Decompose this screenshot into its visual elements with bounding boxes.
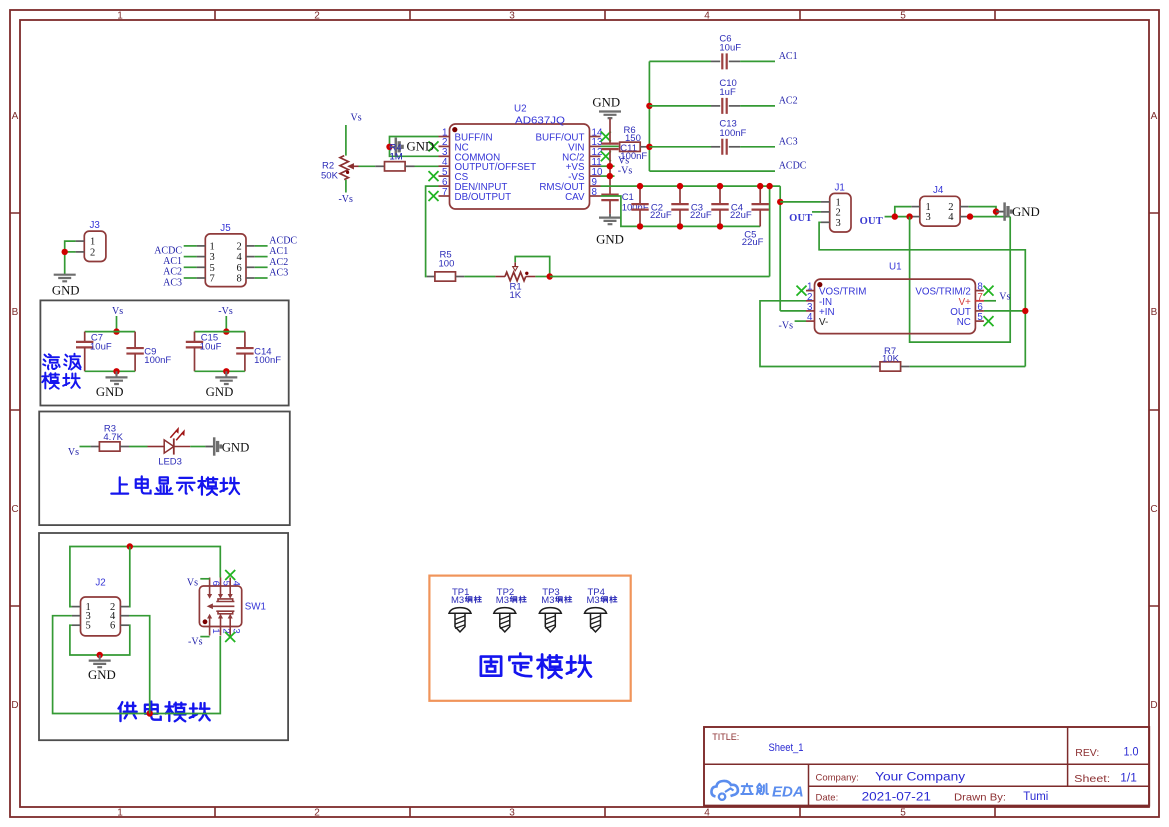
U2 pin 8 CAV — [590, 195, 601, 197]
module title 模块 — [42, 373, 59, 389]
resistor R5 100 — [427, 276, 435, 278]
SW1 pin1 marker dot — [203, 619, 208, 624]
SW1 pin 5 — [220, 578, 222, 596]
svg-text:1M: 1M — [390, 151, 403, 162]
no-connect X U1 pin8 — [984, 286, 994, 296]
node junction J3 — [61, 249, 67, 255]
resistor R3 4.7K — [91, 446, 100, 448]
no-connect X U2 pin 2 — [429, 141, 439, 151]
ground (sideways) at R4 loop — [390, 146, 396, 148]
junction feedback riser on rail — [766, 183, 772, 189]
junction C2 top — [637, 183, 643, 189]
wire riser up to RMS/OUT rail — [769, 187, 771, 277]
J4 pin 3 — [911, 216, 920, 218]
svg-text:Drawn By:: Drawn By: — [954, 793, 1006, 804]
wire rail corner down to J1 pin1 — [779, 186, 781, 311]
svg-text:AC3: AC3 — [163, 277, 182, 288]
svg-text:4: 4 — [948, 212, 954, 223]
ground GND at J2 — [99, 655, 101, 660]
J1 pin 3 — [821, 221, 830, 223]
wire R2 wiper to R4 — [359, 165, 376, 167]
module box 固定模块 (orange) — [429, 576, 630, 701]
U1 pin 1 VOS/TRIM — [806, 290, 815, 292]
node junction right of R1 — [547, 273, 553, 279]
J2 pin 5 — [72, 624, 81, 626]
svg-text:GND: GND — [88, 668, 116, 682]
svg-text:-Vs: -Vs — [188, 637, 203, 648]
svg-text:AD637JQ: AD637JQ — [515, 115, 565, 126]
node junction bottom wire — [147, 710, 153, 716]
wire J2 pin5 to GND rail — [70, 625, 130, 655]
wire Vs to R3 — [80, 446, 91, 448]
svg-text:Vs: Vs — [351, 113, 362, 124]
svg-text:J3: J3 — [90, 220, 101, 231]
svg-text:Vs: Vs — [68, 447, 79, 458]
node junction filter top Vs — [113, 328, 119, 334]
node junction J4 pin1/3 — [892, 213, 898, 219]
junction C4 bottom — [717, 223, 723, 229]
screw symbol TP2 — [494, 608, 516, 614]
svg-text:50K: 50K — [321, 170, 339, 181]
wire J2 pin3 down to bottom — [53, 616, 221, 714]
resistor R7 10K — [871, 366, 880, 368]
wire J4 pin2 to GND — [969, 207, 996, 217]
capacitor C5 22uF — [759, 186, 761, 203]
module title 固定模块 — [481, 657, 501, 676]
module title 供电模块 — [119, 702, 137, 721]
svg-text:AC1: AC1 — [779, 51, 798, 62]
capacitor C4 22uF — [719, 186, 721, 203]
J2 pin 3 — [72, 615, 81, 617]
junction C3 top — [677, 183, 683, 189]
no-connect X U1 pin1 — [797, 286, 807, 296]
svg-text:3: 3 — [509, 808, 515, 819]
net label OUT at J1 pin2 — [812, 211, 821, 213]
svg-text:-Vs: -Vs — [779, 320, 794, 331]
node junction filter top -Vs — [223, 328, 229, 334]
svg-text:1/1: 1/1 — [1120, 772, 1137, 784]
SW1 upper contact — [216, 599, 234, 602]
U2 pin 5 CS — [439, 175, 450, 177]
U1 pin 4 V- — [806, 320, 815, 322]
wire R4 to U2 pin 4 — [415, 165, 439, 167]
svg-text:22uF: 22uF — [650, 210, 672, 221]
title block row divider 1 — [704, 763, 1149, 765]
SW1 common arm — [211, 605, 235, 607]
svg-text:8: 8 — [237, 274, 242, 285]
svg-text:4: 4 — [704, 808, 710, 819]
wire AC bus vertical — [648, 61, 650, 171]
module box 供电模块 — [39, 533, 288, 740]
op-amp U2 AD637JQ body — [450, 124, 590, 209]
wire U2 pin6 down and right to R5 — [426, 186, 439, 276]
J1 pin 2 — [821, 211, 830, 213]
svg-text:B: B — [1151, 307, 1158, 318]
svg-text:10uF: 10uF — [200, 342, 222, 353]
node junction on pin1-pin3 loop — [386, 144, 392, 150]
svg-text:U1: U1 — [889, 261, 902, 272]
svg-text:7: 7 — [442, 187, 447, 198]
node junction J4 pin4 — [967, 213, 973, 219]
node junction GND stem — [993, 208, 999, 214]
wire filter top rail — [195, 331, 245, 333]
svg-text:6: 6 — [210, 581, 221, 586]
wire filter bottom rail — [85, 370, 135, 372]
svg-text:22uF: 22uF — [730, 210, 752, 221]
svg-text:DB/OUTPUT: DB/OUTPUT — [455, 192, 512, 203]
svg-text:4: 4 — [704, 11, 710, 22]
J5 pin 5 — [197, 266, 206, 268]
connector J4 — [920, 196, 960, 226]
svg-text:5: 5 — [210, 263, 215, 274]
wire U2 pin13 to R6 — [601, 145, 619, 147]
wire U2 pin10 -VS stub — [601, 175, 615, 177]
svg-text:Vs: Vs — [112, 306, 123, 317]
svg-text:10uF: 10uF — [719, 43, 741, 54]
U2 pin 14 BUFF/OUT — [590, 136, 601, 138]
svg-text:Sheet_1: Sheet_1 — [769, 742, 804, 754]
potentiometer R2 50K — [340, 156, 348, 180]
svg-text:M3: M3 — [541, 595, 554, 606]
ground (sideways) at J4 — [996, 211, 1004, 213]
wire R1 node to feedback riser — [550, 276, 770, 278]
SW1 pin 1 — [209, 617, 211, 636]
title block row divider 2 — [809, 785, 1150, 787]
svg-text:6: 6 — [237, 263, 242, 274]
ground GND below J3 — [54, 275, 76, 282]
node junction GND rail — [97, 652, 103, 658]
svg-text:4: 4 — [237, 252, 243, 263]
ground GND filter — [116, 371, 118, 377]
ground GND filter — [225, 371, 227, 377]
svg-text:AC2: AC2 — [779, 96, 798, 107]
frame column ticks top/bottom — [215, 10, 995, 817]
svg-text:100nF: 100nF — [254, 355, 281, 366]
J5 pin 3 — [197, 256, 206, 258]
U2 pin 12 NC/2 — [590, 155, 601, 157]
svg-text:OUT: OUT — [860, 216, 883, 227]
wire J4 pin4 — [969, 216, 1011, 218]
capacitor C11 100nF (vertical) — [601, 144, 618, 150]
U2 pin 4 OUTPUT/OFFSET — [439, 165, 450, 167]
svg-text:2: 2 — [836, 207, 841, 218]
svg-text:J4: J4 — [933, 185, 944, 196]
junction C4 top — [717, 183, 723, 189]
U2 pin 3 COMMON — [439, 155, 450, 157]
capacitor C1 100nF (vertical) — [601, 195, 618, 201]
svg-text:1: 1 — [117, 11, 123, 22]
capacitor C10 1uF — [649, 105, 711, 107]
node junction U1 OUT — [1022, 308, 1028, 314]
svg-text:22uF: 22uF — [742, 237, 764, 248]
svg-text:Company:: Company: — [816, 773, 859, 784]
svg-text:1: 1 — [117, 808, 123, 819]
wire J3 pins to GND — [65, 241, 76, 274]
node junction R6/AC3 — [646, 144, 652, 150]
J5 pin 6 — [246, 266, 255, 268]
svg-text:D: D — [1150, 700, 1157, 711]
capacitor C7 10uF — [84, 332, 86, 342]
svg-text:GND: GND — [52, 283, 80, 297]
wire R7 to feedback riser — [910, 366, 1026, 368]
wire R5 to R1 — [464, 276, 495, 278]
wire Vs to R2 top — [345, 125, 347, 156]
SW1 pin 3 — [229, 617, 231, 636]
module title 上电显示模块 — [111, 477, 128, 493]
svg-text:GND: GND — [592, 96, 620, 110]
U1 pin 7 V+ — [975, 300, 984, 302]
svg-text:A: A — [1151, 111, 1158, 122]
frame row ticks left/right — [10, 213, 1159, 606]
svg-text:D: D — [11, 700, 18, 711]
svg-text:M3: M3 — [451, 595, 464, 606]
junction C3 bottom — [677, 223, 683, 229]
svg-text:A: A — [12, 111, 19, 122]
svg-text:3: 3 — [230, 628, 241, 633]
no-connect X SW1 pin4 — [225, 570, 235, 580]
svg-text:J1: J1 — [835, 183, 845, 194]
svg-text:ACDC: ACDC — [269, 235, 297, 246]
svg-text:J5: J5 — [220, 223, 231, 234]
wire R1 to node — [535, 276, 549, 278]
wire R1 wiper loop — [515, 257, 550, 277]
U2 pin 10 -VS — [590, 175, 601, 177]
logo 立创 — [741, 784, 753, 794]
svg-text:150: 150 — [625, 133, 641, 144]
module title 滤波 — [43, 354, 59, 369]
node junction J4 pin3 riser — [906, 213, 912, 219]
wire Vs to SW1 pin6 — [200, 578, 209, 580]
svg-text:NC: NC — [957, 317, 971, 328]
LED LED3 — [148, 446, 164, 448]
wire U1 +IN to rail riser — [780, 310, 806, 312]
svg-text:SW1: SW1 — [245, 602, 266, 613]
junction C2 bottom — [637, 223, 643, 229]
J3 pin 1 — [76, 240, 85, 242]
screw symbol TP1 — [449, 608, 471, 614]
SW1 lower contact — [216, 611, 234, 614]
capacitor C9 100nF — [134, 332, 136, 348]
svg-text:5: 5 — [900, 808, 906, 819]
wire filter top rail — [85, 331, 135, 333]
svg-text:10uF: 10uF — [90, 342, 112, 353]
wire U1 V+ to Vs — [984, 300, 996, 302]
logo EasyEDA cloud — [711, 781, 737, 797]
module box 滤波模块 — [40, 300, 288, 405]
wire J2 pin4 down to bottom — [129, 616, 150, 714]
J4 pin 2 — [960, 206, 969, 208]
capacitor C15 10uF — [194, 332, 196, 342]
U2 pin 1 BUFF/IN — [439, 136, 450, 138]
svg-text:-Vs: -Vs — [618, 166, 633, 177]
node junction filter bottom — [113, 368, 119, 374]
wire RMS/OUT rail — [601, 185, 781, 187]
U2 pin 6 DEN/INPUT — [439, 185, 450, 187]
wire junction down to J2 pin2 — [128, 547, 131, 607]
U2 pin 7 DB/OUTPUT — [439, 195, 450, 197]
resistor R6 150 — [620, 142, 641, 151]
svg-text:V-: V- — [819, 317, 828, 328]
title block col divider rev — [1067, 727, 1069, 786]
svg-text:Date:: Date: — [816, 793, 839, 804]
svg-text:Your Company: Your Company — [875, 772, 965, 784]
wire J4 pin1 loop — [895, 207, 912, 217]
wire ACDC row — [649, 170, 775, 172]
svg-text:GND: GND — [96, 385, 124, 399]
svg-text:GND: GND — [222, 440, 250, 454]
svg-text:C: C — [1150, 504, 1157, 515]
J4 pin 4 — [960, 216, 969, 218]
svg-text:REV:: REV: — [1075, 748, 1099, 759]
no-connect X SW1 pin3 — [225, 632, 235, 642]
svg-text:4: 4 — [230, 581, 241, 586]
wire J4 pin3 to OUT — [885, 216, 912, 218]
svg-text:1: 1 — [210, 241, 215, 252]
svg-text:3: 3 — [509, 11, 515, 22]
svg-text:1K: 1K — [510, 290, 522, 301]
node junction J1 pin1 — [777, 199, 783, 205]
svg-text:ACDC: ACDC — [154, 245, 182, 256]
J3 pin 2 — [76, 251, 85, 253]
connector J3 — [84, 231, 106, 261]
title block col divider logo — [808, 764, 810, 805]
resistor R4 1M — [375, 165, 384, 167]
SW1 pin 2 — [220, 617, 222, 636]
svg-text:Vs: Vs — [187, 577, 198, 588]
svg-text:Tumi: Tumi — [1023, 791, 1048, 803]
svg-text:3: 3 — [836, 218, 841, 229]
module box 上电显示模块 — [39, 412, 290, 526]
wire U2 pin11 +VS stub — [601, 165, 615, 167]
svg-text:Vs: Vs — [999, 292, 1010, 303]
svg-text:2: 2 — [314, 11, 320, 22]
svg-text:EDA: EDA — [772, 784, 804, 801]
U1 pin 3 +IN — [806, 310, 815, 312]
ground (sideways) LED3 — [205, 446, 214, 448]
capacitor C6 10uF — [649, 60, 711, 62]
svg-text:J2: J2 — [95, 577, 105, 588]
svg-text:TITLE:: TITLE: — [712, 732, 739, 742]
svg-text:OUT: OUT — [789, 213, 812, 224]
svg-text:AC1: AC1 — [163, 256, 182, 267]
no-connect X U2 pin 12 — [601, 151, 611, 161]
U2 pin 11 +VS — [590, 165, 601, 167]
U2 pin 9 RMS/OUT — [590, 185, 601, 187]
svg-text:AC3: AC3 — [269, 268, 288, 279]
no-connect X U2 pin 7 — [429, 191, 439, 201]
wire filter bottom rail — [195, 370, 245, 372]
junction C5 top — [757, 183, 763, 189]
svg-text:1: 1 — [90, 237, 95, 248]
svg-text:CAV: CAV — [565, 192, 585, 203]
no-connect X U2 pin 5 — [429, 171, 439, 181]
svg-text:ACDC: ACDC — [779, 161, 807, 172]
svg-text:AC2: AC2 — [269, 257, 288, 268]
wire U1 OUT to feedback node — [984, 310, 1025, 312]
U1 pin 5 NC — [975, 320, 984, 322]
op-amp U1 body — [815, 279, 976, 334]
connector J1 — [830, 193, 851, 232]
svg-text:AC2: AC2 — [163, 267, 182, 278]
wire -Vs drop — [225, 316, 227, 332]
capacitor C2 22uF — [639, 186, 641, 203]
U1 pin 2 -IN — [806, 300, 815, 302]
svg-text:LED3: LED3 — [158, 456, 182, 467]
svg-text:-Vs: -Vs — [218, 306, 233, 317]
wire U2 pin1 loop to pin3 — [390, 137, 439, 157]
capacitor C3 22uF — [679, 186, 681, 203]
svg-text:-Vs: -Vs — [338, 194, 353, 205]
wire Vs drop — [116, 316, 118, 332]
svg-text:1: 1 — [210, 628, 221, 633]
svg-text:5: 5 — [86, 621, 91, 632]
J2 pin 2 — [120, 606, 129, 608]
J4 pin 1 — [911, 206, 920, 208]
svg-text:7: 7 — [210, 274, 215, 285]
screw symbol TP4 — [585, 608, 607, 614]
svg-text:M3: M3 — [496, 595, 509, 606]
svg-text:100nF: 100nF — [719, 128, 746, 139]
svg-text:8: 8 — [592, 187, 598, 198]
capacitor C13 100nF — [649, 146, 711, 148]
J2 pin 1 — [72, 606, 81, 608]
wire J4 lower loop — [910, 217, 1011, 343]
svg-text:Sheet:: Sheet: — [1074, 774, 1110, 785]
svg-text:3: 3 — [926, 212, 931, 223]
wire U2 pin8 CAV down to bottom rail — [601, 196, 761, 226]
wire U1 V- to -Vs — [795, 320, 806, 322]
svg-text:4: 4 — [807, 312, 813, 323]
svg-text:2: 2 — [237, 241, 242, 252]
node junction AC2 — [646, 103, 652, 109]
connector J2 — [81, 597, 121, 636]
svg-text:C1: C1 — [622, 192, 634, 203]
svg-text:5: 5 — [977, 312, 983, 323]
svg-text:5: 5 — [900, 11, 906, 22]
screw symbol TP3 — [539, 608, 561, 614]
wire J1 pin3 loop down/right — [819, 222, 1025, 366]
svg-text:GND: GND — [596, 232, 624, 246]
J5 pin 1 — [197, 245, 206, 247]
svg-text:100: 100 — [439, 258, 455, 269]
svg-text:AC1: AC1 — [269, 246, 288, 257]
svg-text:GND: GND — [407, 140, 435, 154]
svg-text:2021-07-21: 2021-07-21 — [862, 792, 931, 804]
J5 pin 7 — [197, 277, 206, 279]
svg-text:100nF: 100nF — [144, 355, 171, 366]
connector J5 — [205, 234, 246, 287]
node junction top wire — [127, 543, 133, 549]
svg-text:22uF: 22uF — [690, 210, 712, 221]
svg-text:M3: M3 — [587, 595, 600, 606]
switch SW1 body — [199, 586, 241, 627]
J5 pin 2 — [246, 245, 255, 247]
svg-text:U2: U2 — [514, 103, 527, 114]
svg-text:4.7K: 4.7K — [103, 432, 123, 443]
U1 pin 8 VOS/TRIM/2 — [975, 290, 984, 292]
wire J2 pin1 up/over to SW1 — [70, 547, 220, 607]
svg-text:2: 2 — [90, 247, 95, 258]
svg-text:3: 3 — [210, 252, 215, 263]
svg-text:10K: 10K — [882, 354, 900, 365]
no-connect X U2 pin 14 — [601, 132, 611, 142]
node junction -VS — [607, 173, 613, 179]
J5 pin 8 — [246, 277, 255, 279]
node junction +VS — [607, 163, 613, 169]
node junction filter bottom — [223, 368, 229, 374]
wire U1 -IN left and down to R7 — [760, 301, 871, 367]
U2 pin 2 NC — [439, 145, 450, 147]
